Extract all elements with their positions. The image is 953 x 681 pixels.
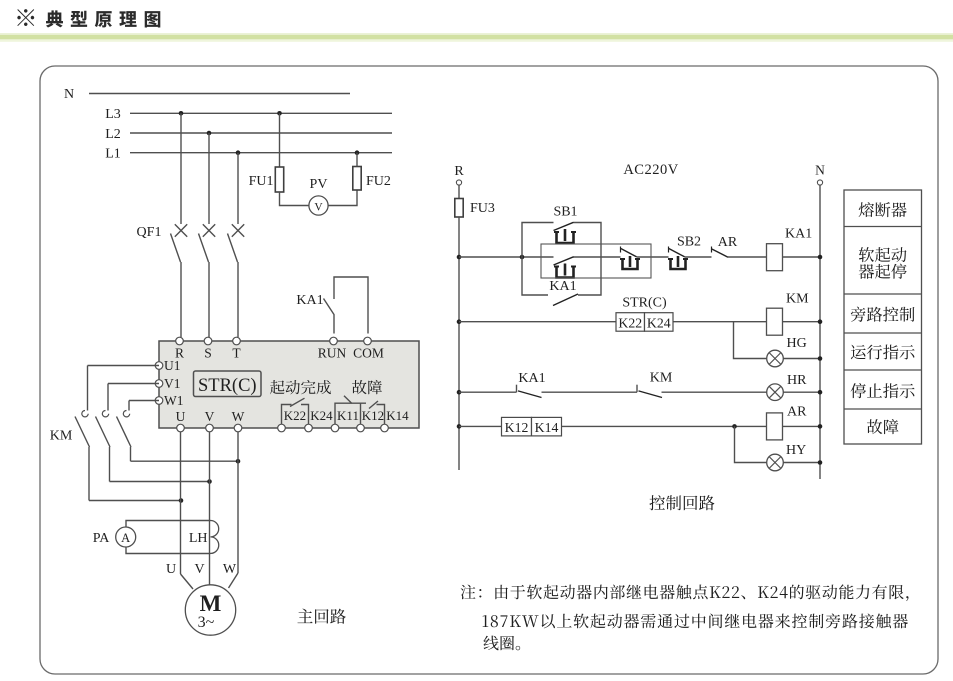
- junction rung4 right: [818, 424, 823, 429]
- legend divider: [844, 226, 922, 228]
- terminal S: [204, 337, 212, 345]
- wire W to motor: [229, 573, 239, 588]
- wire rung2: [459, 321, 616, 323]
- legend text 器起停: [859, 264, 907, 279]
- wire L3 bus: [130, 112, 392, 114]
- junction rung1 left: [457, 255, 462, 260]
- wire HG to bus: [783, 358, 820, 360]
- svg-text:AC220V: AC220V: [623, 162, 678, 178]
- terminal relay output: [305, 424, 313, 432]
- wire HY branch: [735, 426, 767, 462]
- junction HR right: [818, 390, 823, 395]
- contactor coil KM: [767, 308, 783, 335]
- svg-text:3~: 3~: [198, 614, 215, 631]
- fuse FU2: [353, 167, 361, 191]
- svg-text:N: N: [64, 87, 74, 102]
- fuse FU3: [455, 199, 463, 218]
- wire phase W vertical: [237, 432, 239, 573]
- fuse FU1: [275, 167, 283, 192]
- svg-text:N: N: [815, 163, 825, 178]
- junction rung2 right: [818, 319, 823, 324]
- wire rung3: [459, 391, 517, 393]
- terminal R: [176, 337, 184, 345]
- green divider line: [0, 35, 953, 40]
- legend table frame: [844, 190, 922, 444]
- wire L3 to FU1: [279, 113, 281, 167]
- svg-text:W: W: [223, 562, 237, 577]
- terminal relay output: [357, 424, 365, 432]
- terminal N: [817, 180, 822, 185]
- wire U to motor: [181, 574, 194, 589]
- breaker QF1 pole 2: [208, 133, 210, 224]
- svg-text:K22: K22: [618, 315, 642, 330]
- linkage frame (inner box): [541, 244, 651, 278]
- pushbutton SB1: [554, 222, 574, 230]
- CT winding LH: [211, 521, 219, 554]
- svg-text:U1: U1: [164, 358, 181, 373]
- svg-text:FU1: FU1: [249, 174, 274, 189]
- wire left control bus: [458, 217, 460, 470]
- svg-text:V1: V1: [164, 376, 181, 391]
- wire phase U vertical: [180, 432, 182, 574]
- terminal U1: [155, 362, 163, 370]
- linked contact: [620, 247, 622, 253]
- legend divider: [844, 293, 922, 295]
- note line 3: [483, 636, 520, 651]
- svg-text:STR(C): STR(C): [198, 376, 257, 396]
- svg-text:FU3: FU3: [470, 201, 495, 216]
- lamp HY: [767, 454, 784, 471]
- svg-text:QF1: QF1: [137, 225, 162, 240]
- svg-text:HR: HR: [787, 373, 807, 388]
- svg-text:K22: K22: [284, 408, 306, 423]
- terminal relay output: [381, 424, 389, 432]
- text 起动完成: [270, 380, 331, 394]
- text 主回路: [297, 609, 345, 624]
- page title 典型原理图: [17, 9, 34, 26]
- terminal relay output: [278, 424, 286, 432]
- junction L3/FU1: [277, 111, 282, 116]
- svg-text:KA1: KA1: [785, 227, 812, 242]
- terminal U (output): [177, 424, 185, 432]
- svg-text:HY: HY: [786, 443, 806, 458]
- terminal V (output): [206, 424, 214, 432]
- voltmeter PV: [309, 196, 328, 215]
- svg-text:KA1: KA1: [296, 293, 323, 308]
- junction rung4 mid: [732, 424, 737, 429]
- wire FU1 to PV: [280, 192, 310, 206]
- pushbutton SB2: [668, 247, 670, 253]
- svg-text:KA1: KA1: [549, 279, 576, 294]
- svg-text:K11: K11: [337, 408, 359, 423]
- wire L2 bus: [130, 132, 392, 134]
- contact K22 box: [616, 313, 645, 332]
- svg-text:COM: COM: [353, 346, 384, 361]
- contactor KM pole 2: [108, 383, 159, 385]
- svg-text:K24: K24: [647, 315, 671, 330]
- svg-text:W: W: [232, 409, 245, 424]
- breaker QF1 pole 3: [237, 153, 239, 224]
- terminal T: [233, 337, 241, 345]
- contact K14 box: [532, 417, 562, 436]
- note line 2: [483, 613, 908, 628]
- contact K12 box: [502, 417, 532, 436]
- relay coil AR: [767, 413, 783, 440]
- svg-text:W1: W1: [164, 393, 184, 408]
- junction rung4 left: [457, 424, 462, 429]
- contact AR (NC): [711, 247, 713, 253]
- svg-text:L1: L1: [105, 147, 121, 162]
- svg-text:KM: KM: [50, 429, 73, 444]
- wire PV to FU2: [328, 190, 357, 206]
- legend divider: [844, 369, 922, 371]
- terminal R: [456, 180, 461, 185]
- breaker QF1 pole 1: [180, 113, 182, 224]
- svg-text:V: V: [314, 202, 323, 214]
- svg-text:FU2: FU2: [366, 174, 391, 189]
- svg-text:V: V: [205, 409, 215, 424]
- terminal RUN: [330, 337, 338, 345]
- svg-text:STR(C): STR(C): [622, 296, 667, 311]
- CT secondary loop: [126, 521, 211, 528]
- svg-text:K14: K14: [386, 408, 409, 423]
- contactor KM pole 3: [129, 400, 159, 402]
- relay contact KA1 wiring: [334, 277, 368, 334]
- svg-text:K14: K14: [535, 420, 559, 435]
- svg-text:HG: HG: [787, 336, 807, 351]
- svg-text:U: U: [176, 409, 186, 424]
- svg-text:L2: L2: [105, 127, 121, 142]
- terminal W1: [155, 397, 163, 405]
- svg-text:KM: KM: [650, 371, 673, 386]
- junction start branch: [520, 255, 525, 260]
- soft starter U1 STR(C) body: [159, 341, 419, 428]
- junction L3/QF1: [179, 111, 184, 116]
- wire right control bus N: [819, 185, 821, 479]
- svg-text:K24: K24: [310, 408, 333, 423]
- junction L1/QF1: [236, 150, 241, 155]
- junction HG right: [818, 356, 823, 361]
- legend divider: [844, 408, 922, 410]
- svg-text:AR: AR: [787, 405, 807, 420]
- terminal V1: [155, 380, 163, 388]
- wire L1 bus: [130, 152, 392, 154]
- junction HY right: [818, 460, 823, 465]
- wire R to FU3: [458, 185, 460, 199]
- junction rung2 left: [457, 319, 462, 324]
- soft starter inner label box: [194, 371, 262, 397]
- wire HY to bus: [783, 462, 820, 464]
- svg-text:K12: K12: [362, 408, 384, 423]
- wire N bus: [89, 93, 350, 95]
- wire HG branch: [734, 322, 767, 359]
- ammeter PA: [116, 527, 136, 547]
- svg-text:PV: PV: [310, 177, 328, 192]
- legend text 软起动: [859, 247, 907, 262]
- svg-text:M: M: [200, 591, 222, 616]
- contact KM (lamp circuit): [636, 385, 638, 393]
- relay coil KA1: [767, 244, 783, 271]
- svg-text:V: V: [194, 562, 204, 577]
- start/stop branch frame: [522, 223, 554, 258]
- svg-text:AR: AR: [718, 235, 738, 250]
- terminal relay output: [331, 424, 339, 432]
- svg-text:R: R: [454, 164, 464, 179]
- motor M 3~: [185, 585, 235, 635]
- relay contact K11/K12/K14: [335, 403, 366, 424]
- svg-text:S: S: [204, 346, 212, 361]
- legend text 停止指示: [851, 383, 915, 398]
- svg-text:KA1: KA1: [518, 371, 545, 386]
- wire L1 to FU2: [356, 153, 358, 167]
- junction L2/QF1: [207, 131, 212, 136]
- svg-text:PA: PA: [93, 531, 111, 546]
- svg-text:KM: KM: [786, 292, 809, 307]
- note line 1: [461, 584, 909, 601]
- lower branch blade: [553, 294, 578, 306]
- text 控制回路: [649, 495, 714, 510]
- contact K24 box: [645, 313, 674, 332]
- legend divider: [844, 332, 922, 334]
- contact KA1 (lamp circuit): [516, 385, 518, 393]
- junction L1/FU2: [355, 150, 360, 155]
- text 故障: [352, 380, 382, 394]
- wire HR to bus: [783, 391, 820, 393]
- svg-text:K12: K12: [505, 420, 529, 435]
- svg-text:A: A: [121, 531, 130, 545]
- legend text 故障: [867, 419, 898, 434]
- svg-text:RUN: RUN: [318, 346, 347, 361]
- junction rung3 left: [457, 390, 462, 395]
- svg-text:SB2: SB2: [677, 235, 701, 250]
- svg-text:L3: L3: [105, 107, 121, 122]
- svg-text:T: T: [232, 346, 241, 361]
- contactor KM pole 1: [88, 365, 160, 367]
- junction rung1 right: [818, 255, 823, 260]
- svg-text:U: U: [166, 562, 176, 577]
- terminal COM: [364, 337, 372, 345]
- terminal W (output): [234, 424, 242, 432]
- wire phase V vertical: [209, 432, 211, 585]
- svg-text:LH: LH: [189, 531, 208, 546]
- legend text 旁路控制: [851, 307, 915, 322]
- wire rung1: [459, 256, 554, 258]
- legend text 运行指示: [851, 345, 915, 360]
- relay contact K22/K24: [282, 405, 292, 425]
- wire rung4: [459, 425, 502, 427]
- lamp HG: [767, 350, 784, 367]
- svg-text:SB1: SB1: [553, 205, 577, 220]
- lamp HR: [767, 384, 784, 401]
- contact KA1 self-hold: [554, 257, 574, 265]
- legend text 熔断器: [859, 202, 907, 217]
